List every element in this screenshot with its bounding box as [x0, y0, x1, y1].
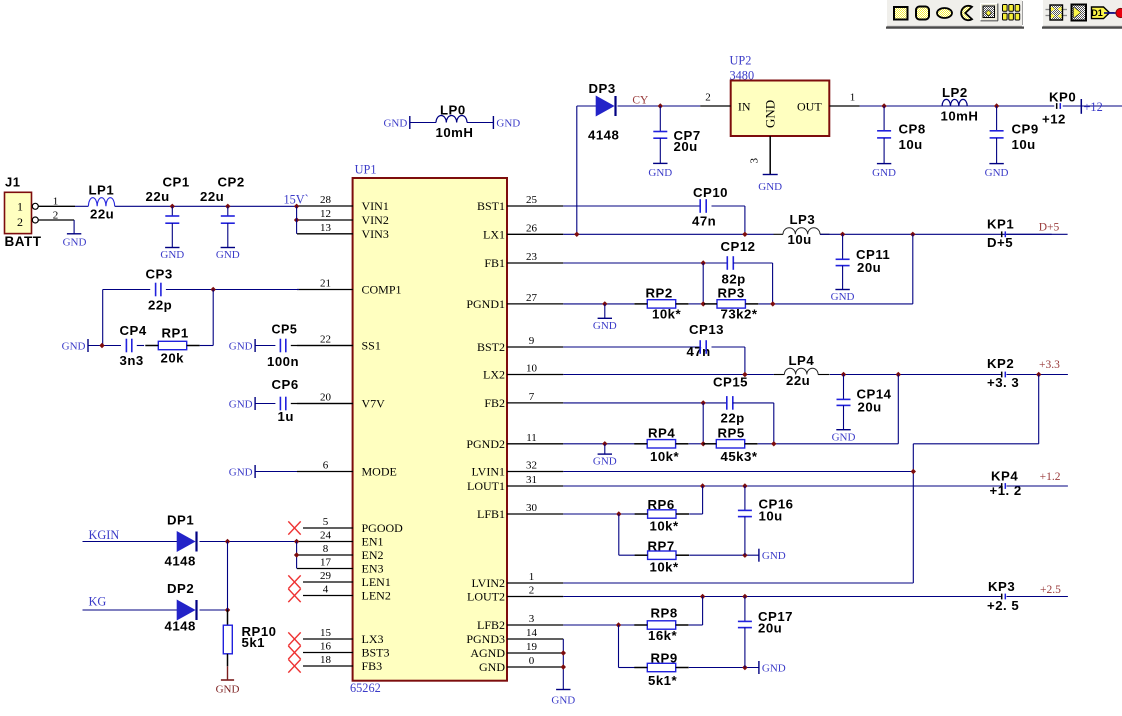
svg-text:20u: 20u: [674, 139, 698, 154]
svg-text:10k*: 10k*: [650, 449, 680, 464]
svg-text:PGND3: PGND3: [466, 632, 505, 646]
svg-text:FB1: FB1: [484, 256, 505, 270]
svg-text:D+5: D+5: [1039, 221, 1060, 233]
svg-text:GND: GND: [762, 550, 786, 562]
svg-text:GND: GND: [383, 118, 407, 130]
svg-text:RP1: RP1: [162, 326, 189, 341]
svg-text:GND: GND: [160, 249, 184, 261]
svg-text:31: 31: [526, 474, 537, 486]
svg-text:GND: GND: [229, 467, 253, 479]
svg-text:1: 1: [529, 571, 535, 583]
svg-text:GND: GND: [758, 181, 782, 193]
svg-text:5: 5: [323, 516, 329, 528]
svg-text:GND: GND: [216, 249, 240, 261]
svg-text:CP12: CP12: [721, 239, 756, 254]
svg-text:10: 10: [526, 363, 538, 375]
svg-text:GND: GND: [216, 683, 240, 695]
svg-text:GND: GND: [872, 167, 896, 179]
svg-text:CP2: CP2: [218, 175, 245, 190]
svg-text:KP3: KP3: [988, 579, 1015, 594]
svg-text:KP4: KP4: [991, 469, 1018, 484]
svg-text:LEN2: LEN2: [362, 589, 391, 603]
svg-text:KP1: KP1: [987, 216, 1014, 231]
svg-text:GND: GND: [832, 432, 856, 444]
svg-text:GND: GND: [62, 341, 86, 353]
svg-text:1: 1: [850, 92, 856, 104]
svg-text:PGOOD: PGOOD: [362, 521, 404, 535]
svg-text:13: 13: [320, 222, 332, 234]
svg-text:21: 21: [320, 278, 331, 290]
svg-text:VIN1: VIN1: [362, 199, 389, 213]
svg-text:RP4: RP4: [648, 425, 675, 440]
svg-text:24: 24: [320, 530, 332, 542]
svg-text:23: 23: [526, 251, 538, 263]
svg-text:LVIN1: LVIN1: [471, 465, 505, 479]
svg-text:+2.5: +2.5: [1040, 584, 1061, 596]
svg-text:GND: GND: [763, 100, 778, 128]
svg-text:LP1: LP1: [89, 182, 115, 197]
svg-text:CP1: CP1: [163, 175, 190, 190]
svg-text:LOUT1: LOUT1: [467, 479, 505, 493]
svg-text:VIN3: VIN3: [362, 227, 389, 241]
svg-text:GND: GND: [63, 237, 87, 249]
svg-text:22u: 22u: [200, 189, 224, 204]
svg-text:CP13: CP13: [689, 322, 724, 337]
svg-text:CP5: CP5: [272, 322, 298, 336]
svg-text:LVIN2: LVIN2: [471, 576, 505, 590]
svg-text:GND: GND: [985, 167, 1009, 179]
svg-text:BST1: BST1: [477, 199, 505, 213]
svg-text:COMP1: COMP1: [362, 283, 402, 297]
svg-text:30: 30: [526, 502, 538, 514]
svg-text:GND: GND: [479, 660, 505, 674]
svg-text:22: 22: [320, 334, 331, 346]
svg-text:+2. 5: +2. 5: [987, 598, 1019, 613]
svg-text:J1: J1: [5, 175, 20, 190]
svg-text:PGND1: PGND1: [466, 297, 505, 311]
svg-text:CP3: CP3: [146, 266, 173, 281]
svg-text:20: 20: [320, 392, 332, 404]
svg-text:10u: 10u: [788, 232, 812, 247]
svg-text:2: 2: [17, 215, 23, 229]
svg-text:GND: GND: [593, 456, 617, 468]
svg-text:PGND2: PGND2: [466, 437, 505, 451]
svg-text:5k1*: 5k1*: [648, 673, 678, 688]
svg-text:18: 18: [320, 654, 332, 666]
svg-text:2: 2: [705, 92, 711, 104]
svg-text:16: 16: [320, 641, 332, 653]
svg-text:LP3: LP3: [790, 212, 816, 227]
svg-text:RP2: RP2: [646, 286, 673, 301]
svg-text:22p: 22p: [721, 411, 745, 426]
svg-text:+3. 3: +3. 3: [987, 375, 1019, 390]
svg-text:28: 28: [320, 194, 332, 206]
svg-text:22u: 22u: [786, 373, 810, 388]
svg-text:9: 9: [529, 335, 535, 347]
svg-text:5k1: 5k1: [242, 635, 266, 650]
svg-text:14: 14: [526, 627, 538, 639]
svg-text:RP8: RP8: [651, 606, 678, 621]
svg-text:BATT: BATT: [5, 234, 42, 249]
svg-text:22u: 22u: [90, 206, 114, 221]
svg-text:FB2: FB2: [484, 396, 505, 410]
svg-text:LX3: LX3: [362, 632, 384, 646]
svg-text:IN: IN: [738, 99, 751, 113]
svg-text:27: 27: [526, 292, 538, 304]
svg-text:47n: 47n: [687, 344, 711, 359]
svg-text:CY: CY: [632, 94, 649, 106]
svg-text:LP0: LP0: [440, 102, 466, 117]
svg-text:11: 11: [526, 432, 537, 444]
svg-text:16k*: 16k*: [648, 628, 678, 643]
svg-text:82p: 82p: [722, 271, 746, 286]
svg-text:GND: GND: [648, 167, 672, 179]
svg-text:+12: +12: [1084, 100, 1103, 114]
svg-text:EN2: EN2: [362, 548, 384, 562]
svg-text:GND: GND: [496, 118, 520, 130]
svg-text:4148: 4148: [588, 128, 619, 143]
svg-text:1: 1: [17, 200, 23, 214]
svg-text:V7V: V7V: [362, 397, 386, 411]
svg-text:26: 26: [526, 223, 538, 235]
svg-text:UP1: UP1: [355, 162, 377, 176]
svg-text:6: 6: [323, 460, 329, 472]
svg-text:CP8: CP8: [899, 121, 926, 136]
svg-text:KP0: KP0: [1049, 89, 1076, 104]
svg-text:10mH: 10mH: [941, 109, 979, 124]
svg-text:32: 32: [526, 460, 537, 472]
svg-text:CP15: CP15: [713, 375, 748, 390]
svg-text:+12: +12: [1042, 112, 1066, 127]
svg-text:MODE: MODE: [362, 465, 397, 479]
svg-text:LX1: LX1: [483, 228, 505, 242]
svg-text:VIN2: VIN2: [362, 213, 389, 227]
svg-text:LOUT2: LOUT2: [467, 590, 505, 604]
svg-text:GND: GND: [593, 320, 617, 332]
svg-text:3n3: 3n3: [120, 353, 144, 368]
svg-text:29: 29: [320, 570, 332, 582]
svg-text:4148: 4148: [165, 553, 196, 568]
svg-text:BST2: BST2: [477, 340, 505, 354]
svg-text:47n: 47n: [692, 213, 716, 228]
svg-text:+3.3: +3.3: [1039, 359, 1060, 371]
svg-text:3: 3: [749, 158, 761, 164]
svg-text:25: 25: [526, 194, 538, 206]
svg-text:DP2: DP2: [167, 581, 194, 596]
svg-text:100n: 100n: [267, 354, 299, 369]
svg-text:KG: KG: [89, 595, 107, 609]
svg-text:20u: 20u: [858, 399, 882, 414]
svg-text:12: 12: [320, 208, 331, 220]
svg-text:45k3*: 45k3*: [721, 449, 758, 464]
svg-text:KGIN: KGIN: [89, 528, 120, 542]
svg-text:LEN1: LEN1: [362, 575, 391, 589]
svg-text:BST3: BST3: [362, 646, 390, 660]
svg-text:65262: 65262: [350, 681, 381, 695]
svg-text:10u: 10u: [1012, 137, 1036, 152]
svg-text:D+5: D+5: [987, 235, 1013, 250]
svg-text:10k*: 10k*: [650, 519, 680, 534]
svg-text:RP3: RP3: [718, 286, 745, 301]
svg-text:2: 2: [529, 585, 535, 597]
svg-text:LX2: LX2: [483, 368, 505, 382]
svg-text:3480: 3480: [730, 69, 755, 83]
svg-text:LFB2: LFB2: [477, 618, 505, 632]
svg-text:10mH: 10mH: [436, 125, 474, 140]
svg-text:OUT: OUT: [797, 99, 822, 113]
svg-text:1u: 1u: [278, 409, 294, 424]
svg-text:7: 7: [529, 391, 535, 403]
svg-text:19: 19: [526, 641, 538, 653]
svg-text:UP2: UP2: [730, 53, 752, 67]
svg-text:SS1: SS1: [362, 339, 381, 353]
svg-text:20u: 20u: [758, 621, 782, 636]
svg-text:10u: 10u: [759, 508, 783, 523]
svg-text:CP6: CP6: [272, 377, 299, 392]
svg-text:EN3: EN3: [362, 562, 384, 576]
svg-text:22u: 22u: [146, 189, 170, 204]
svg-text:CP10: CP10: [693, 185, 728, 200]
svg-text:15: 15: [320, 627, 332, 639]
svg-text:DP1: DP1: [167, 512, 194, 527]
svg-text:20u: 20u: [857, 260, 881, 275]
svg-text:4148: 4148: [165, 618, 196, 633]
svg-text:17: 17: [320, 557, 332, 569]
svg-text:EN1: EN1: [362, 535, 384, 549]
svg-text:4: 4: [323, 584, 329, 596]
svg-text:GND: GND: [229, 341, 253, 353]
svg-text:KP2: KP2: [987, 356, 1014, 371]
svg-text:D1: D1: [1091, 8, 1103, 18]
svg-text:22p: 22p: [148, 297, 172, 312]
svg-text:FB3: FB3: [362, 659, 383, 673]
svg-text:GND: GND: [762, 663, 786, 675]
svg-text:8: 8: [323, 543, 329, 555]
svg-text:0: 0: [529, 655, 535, 667]
svg-text:LFB1: LFB1: [477, 507, 505, 521]
svg-text:GND: GND: [831, 291, 855, 303]
svg-text:AGND: AGND: [470, 646, 505, 660]
svg-text:RP5: RP5: [718, 425, 745, 440]
svg-text:CP9: CP9: [1012, 121, 1039, 136]
svg-text:CP4: CP4: [120, 323, 147, 338]
svg-text:LP2: LP2: [942, 85, 968, 100]
svg-text:10k*: 10k*: [650, 560, 680, 575]
svg-text:LP4: LP4: [789, 353, 815, 368]
svg-text:3: 3: [529, 613, 535, 625]
svg-text:DP3: DP3: [589, 81, 616, 96]
svg-text:20k: 20k: [161, 350, 185, 365]
svg-text:GND: GND: [229, 399, 253, 411]
svg-text:GND: GND: [551, 695, 575, 707]
svg-text:10u: 10u: [899, 137, 923, 152]
svg-text:+1.2: +1.2: [1040, 471, 1061, 483]
